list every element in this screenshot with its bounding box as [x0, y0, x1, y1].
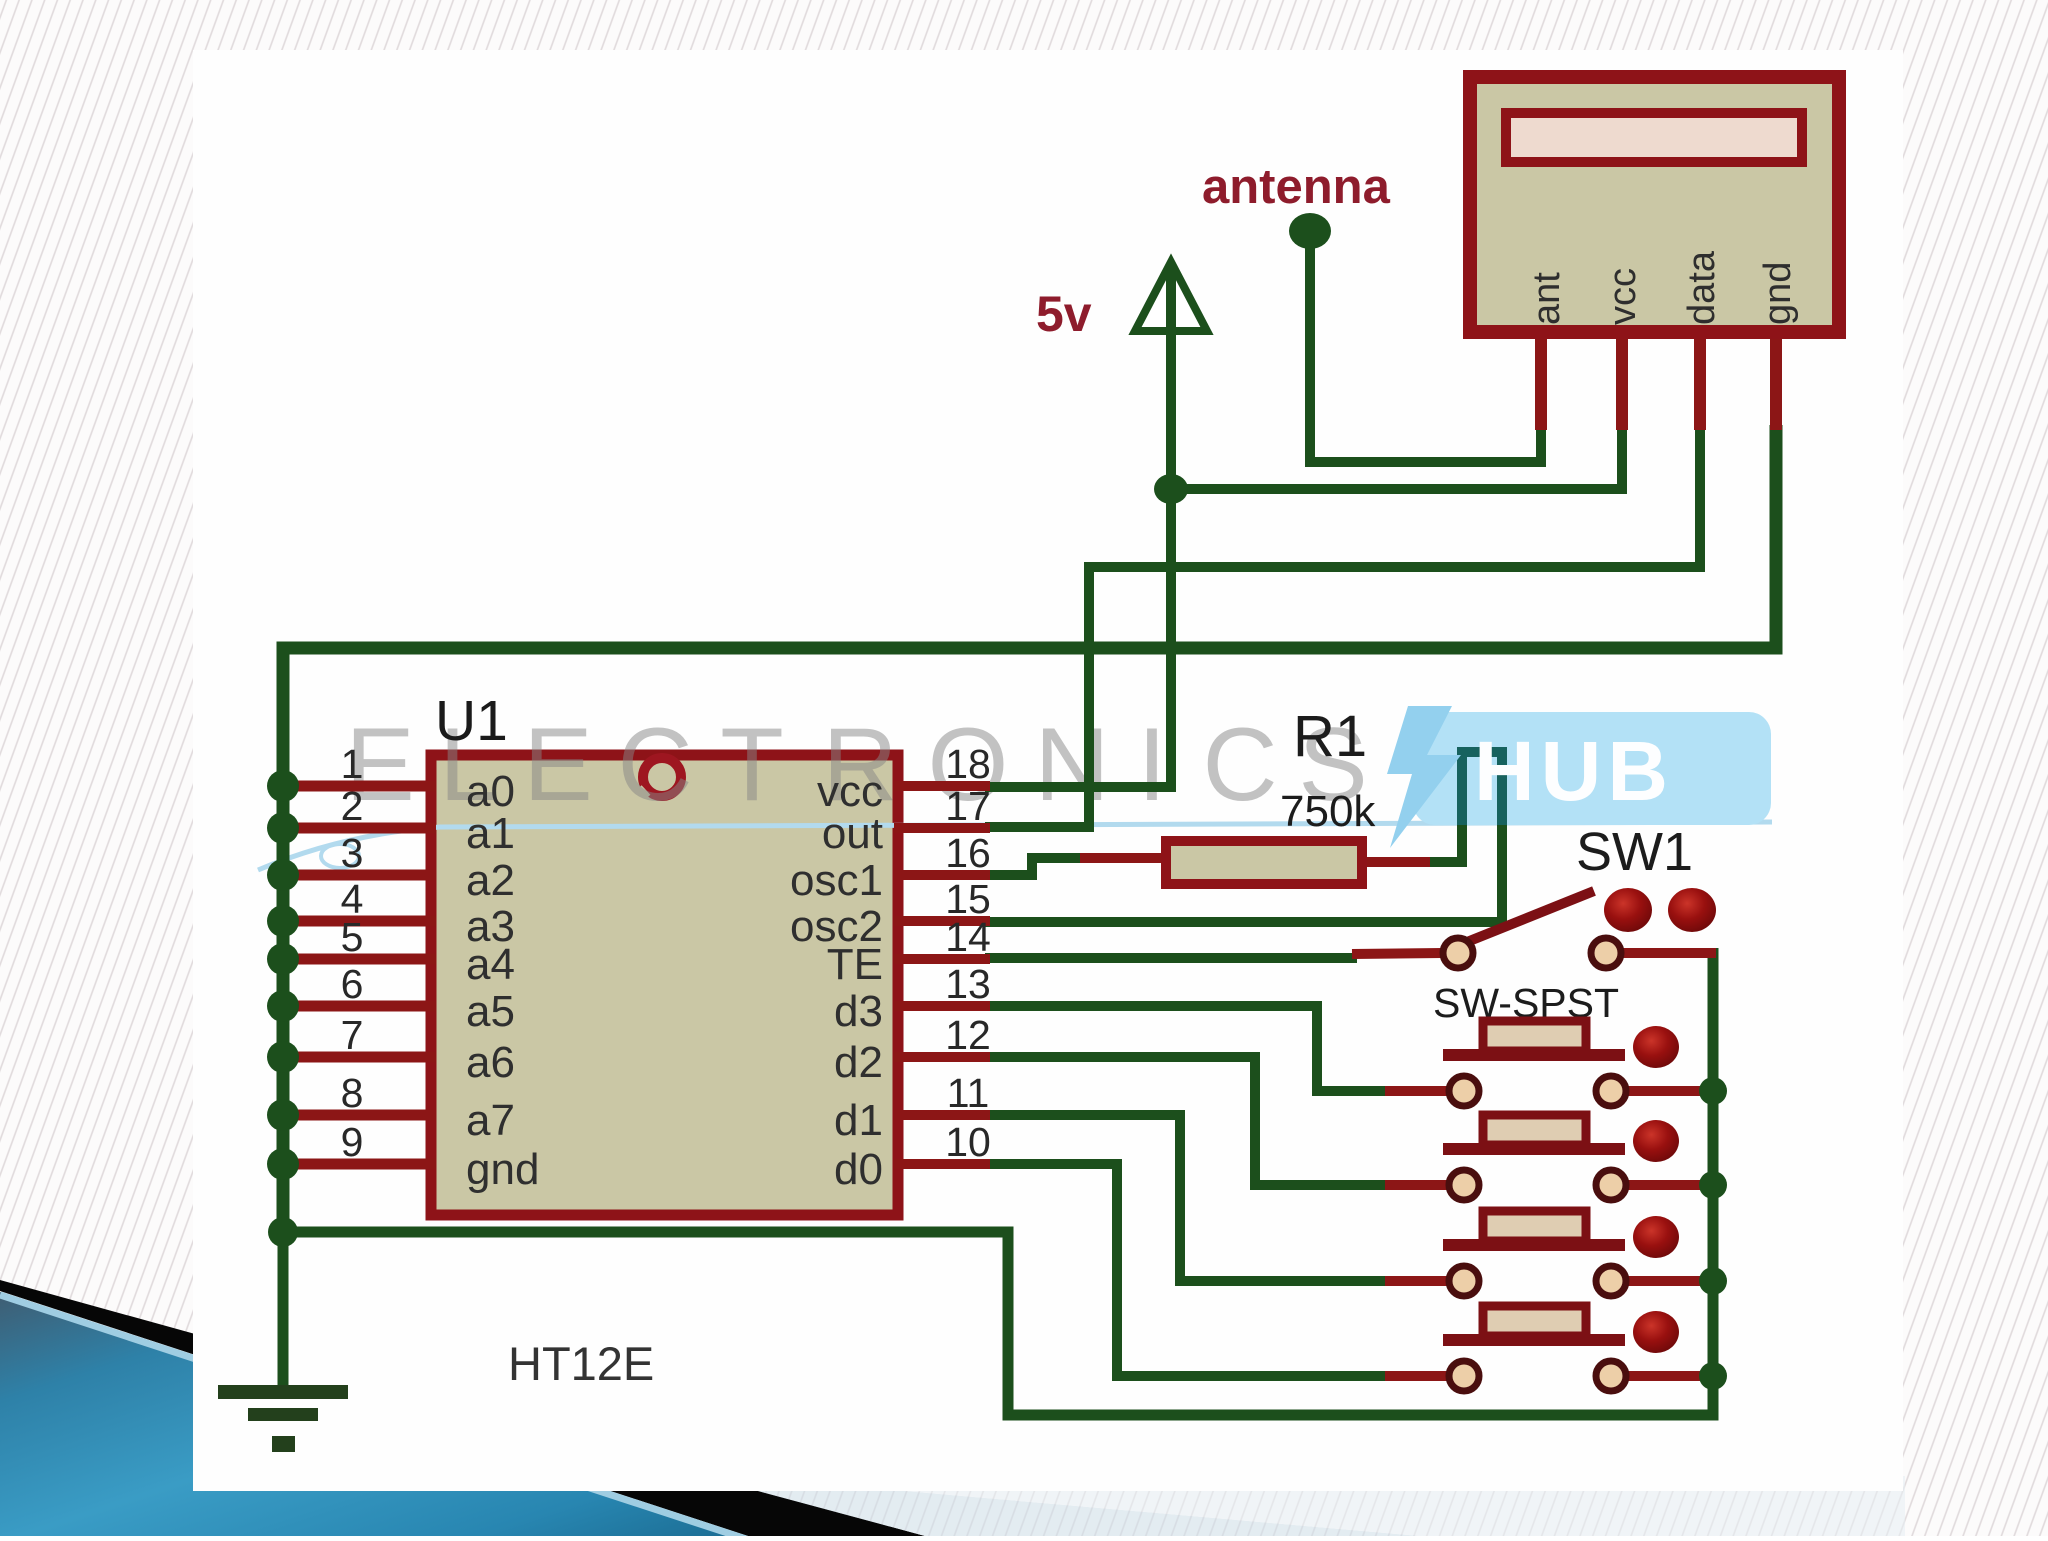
teal wire seen through logo	[1462, 752, 1502, 825]
svg-text:9: 9	[341, 1119, 364, 1165]
decorative pale band bottom-right	[758, 1476, 1905, 1536]
svg-text:11: 11	[947, 1070, 990, 1116]
wire: IC d3 pin to button 1	[985, 1006, 1385, 1091]
junction dot button 1 on bus	[1699, 1077, 1727, 1105]
wire: module gnd pin to ground bus (net GND)	[283, 425, 1776, 1237]
push button 4 (d0)	[1385, 1306, 1716, 1391]
svg-text:SW1: SW1	[1576, 822, 1693, 882]
IC U1 right pin stubs (pins 18-10)	[894, 786, 990, 1164]
RF module pin stubs (ant vcc data gnd)	[1541, 337, 1776, 430]
IC U1 right pin names	[790, 767, 883, 1194]
svg-text:12: 12	[945, 1012, 991, 1058]
IC U1 body (HT12E)	[431, 755, 898, 1215]
antenna label	[1202, 160, 1391, 214]
watermark ELECTRONICS	[345, 707, 1367, 823]
svg-text:14: 14	[945, 914, 991, 960]
svg-text:17: 17	[945, 783, 991, 829]
svg-text:U1: U1	[435, 689, 508, 753]
ground symbol	[218, 1385, 348, 1452]
svg-text:I: I	[1138, 707, 1167, 823]
resistor R1 body	[1080, 841, 1430, 884]
svg-text:2: 2	[341, 783, 364, 829]
svg-text:d2: d2	[834, 1038, 883, 1087]
wire: IC d2 pin to button 2	[985, 1057, 1385, 1185]
svg-text:TE: TE	[827, 940, 883, 989]
svg-text:N: N	[1034, 707, 1109, 823]
IC U1 left pin numbers 1-9	[341, 741, 364, 1165]
svg-text:16: 16	[945, 830, 991, 876]
svg-text:8: 8	[341, 1070, 364, 1116]
wire: IC d1 pin to button 3	[985, 1115, 1385, 1281]
svg-text:out: out	[822, 809, 883, 858]
decorative blue triangle bottom-left	[0, 1292, 760, 1541]
svg-text:osc1: osc1	[790, 856, 883, 905]
svg-text:18: 18	[945, 741, 991, 787]
antenna terminal dot	[1289, 213, 1331, 249]
RF module antenna slot	[1506, 113, 1802, 162]
wire: osc1 to R1 left terminal	[985, 858, 1080, 875]
junction dots on ground bus	[267, 770, 299, 1247]
svg-text:13: 13	[945, 961, 991, 1007]
wire: antenna to module ant pin	[1310, 232, 1541, 462]
watermark swoosh line	[258, 822, 1772, 870]
wire: module vcc pin to 5v rail	[1172, 425, 1622, 489]
svg-text:5: 5	[341, 914, 364, 960]
wire: IC out pin to module data pin	[985, 425, 1700, 827]
decorative black band bottom-left	[0, 1280, 925, 1536]
switch SW1 TE wire red segment	[1352, 953, 1442, 954]
svg-text:C: C	[617, 707, 692, 823]
push button 2 (d2)	[1385, 1115, 1716, 1200]
svg-text:a4: a4	[466, 940, 515, 989]
wire: 5v rail	[985, 266, 1171, 787]
svg-text:d3: d3	[834, 987, 883, 1036]
svg-text:7: 7	[341, 1012, 364, 1058]
svg-text:d0: d0	[834, 1145, 883, 1194]
svg-text:antenna: antenna	[1202, 160, 1391, 214]
switch SW1 actuator buttons	[1604, 888, 1716, 932]
svg-text:T: T	[720, 707, 784, 823]
junction dot button 3 on bus	[1699, 1267, 1727, 1295]
junction dot 5v/vcc node	[1154, 474, 1188, 504]
svg-text:a5: a5	[466, 987, 515, 1036]
push button 1 (d3)	[1385, 1021, 1716, 1106]
RF module pin labels	[1526, 250, 1799, 325]
R1 label	[1293, 704, 1367, 769]
svg-text:a1: a1	[466, 809, 515, 858]
svg-text:gnd: gnd	[466, 1145, 539, 1194]
logo HUB text	[1474, 724, 1674, 818]
svg-text:5v: 5v	[1036, 286, 1092, 342]
svg-text:a7: a7	[466, 1096, 515, 1145]
svg-text:HUB: HUB	[1474, 724, 1674, 818]
svg-text:750k: 750k	[1280, 787, 1376, 836]
svg-text:HT12E: HT12E	[508, 1337, 654, 1390]
wire: IC d0 pin to button 4	[985, 1164, 1385, 1376]
SW-SPST label	[1433, 980, 1619, 1026]
RF transmitter module body	[1470, 77, 1839, 332]
junction dot button 2 on bus	[1699, 1171, 1727, 1199]
svg-text:vcc: vcc	[1602, 268, 1644, 325]
svg-text:C: C	[1202, 707, 1277, 823]
svg-text:a2: a2	[466, 856, 515, 905]
U1 reference label	[435, 689, 508, 753]
HT12E label	[508, 1337, 654, 1390]
svg-text:3: 3	[341, 830, 364, 876]
R1 value 750k	[1280, 787, 1376, 836]
svg-text:data: data	[1681, 250, 1723, 325]
ELECTRONICS HUB logo plate	[1413, 712, 1771, 825]
svg-text:ant: ant	[1526, 272, 1568, 325]
IC U1 left pin stubs (pins 1-9)	[285, 786, 436, 1164]
svg-text:10: 10	[945, 1119, 991, 1165]
switch SW1 right contact	[1591, 938, 1716, 968]
switch SW1 lever	[1462, 891, 1594, 944]
switch SW1 pivot contact	[1443, 938, 1473, 968]
svg-text:d1: d1	[834, 1096, 883, 1145]
white schematic sheet	[193, 50, 1903, 1491]
svg-text:1: 1	[341, 741, 364, 787]
push button 3 (d1)	[1385, 1211, 1716, 1296]
wire: TE pin to switch SW1	[985, 954, 1352, 958]
junction dot button 4 on bus	[1699, 1362, 1727, 1390]
svg-text:E: E	[523, 707, 592, 823]
svg-text:a6: a6	[466, 1038, 515, 1087]
IC U1 notch mark	[634, 758, 681, 801]
svg-text:R1: R1	[1293, 704, 1367, 769]
5v label	[1036, 286, 1092, 342]
svg-text:gnd: gnd	[1757, 262, 1799, 325]
IC U1 left pin names	[466, 767, 539, 1194]
svg-text:6: 6	[341, 961, 364, 1007]
logo lightning bolt	[1387, 706, 1461, 848]
wire: ground return to switch bus	[283, 948, 1713, 1415]
IC U1 right pin numbers 18-10	[945, 741, 991, 1165]
5v power arrow	[1135, 262, 1207, 345]
wire: ground stem	[278, 1232, 289, 1390]
wire: osc2 to R1 right terminal	[985, 752, 1502, 922]
SW1 label	[1576, 822, 1693, 882]
